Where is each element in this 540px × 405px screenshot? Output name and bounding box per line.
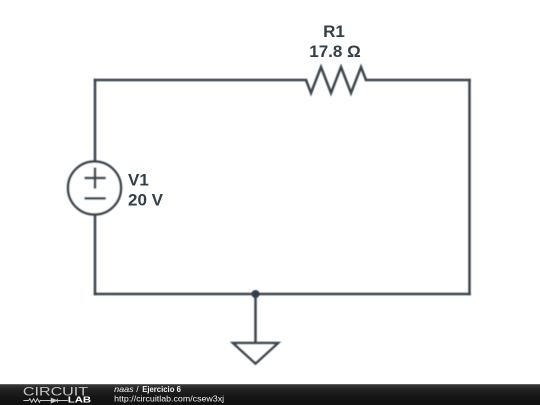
svg-text:17.8 Ω: 17.8 Ω: [309, 42, 360, 61]
wire top segment: resistor R1 right terminal to top-right corner: [366, 79, 470, 82]
wire left upper segment: top-left corner to voltage source V1 positive terminal: [94, 80, 97, 161]
svg-text:naas: naas: [114, 384, 134, 394]
wire ground stem: [254, 294, 257, 343]
minus sign inside V1: [86, 197, 105, 200]
wire bottom segment: bottom-right corner to bottom-left corner: [95, 293, 470, 296]
CircuitLab logo schematic: wire, resistor, diode: [23, 398, 68, 402]
voltage source V1 circle: [68, 162, 121, 215]
svg-text:LAB: LAB: [68, 396, 92, 405]
svg-text:http://circuitlab.com/csew3xj: http://circuitlab.com/csew3xj: [114, 394, 224, 404]
plus sign inside V1: [86, 169, 105, 188]
ground symbol triangle: [233, 343, 278, 364]
svg-text:V1: V1: [128, 171, 149, 190]
wire right segment: top-right corner to bottom-right corner: [468, 80, 471, 294]
wire left lower segment: voltage source V1 negative terminal to bottom-left corner: [94, 215, 97, 294]
svg-text:20 V: 20 V: [128, 191, 164, 210]
footer black bar: [0, 384, 540, 405]
svg-text:R1: R1: [323, 22, 345, 41]
svg-text:Ejercicio 6: Ejercicio 6: [142, 384, 181, 394]
resistor R1: [306, 67, 366, 93]
junction node dot on bottom wire: [252, 290, 260, 298]
wire top segment: top-left corner to resistor R1 left terminal: [95, 79, 306, 82]
